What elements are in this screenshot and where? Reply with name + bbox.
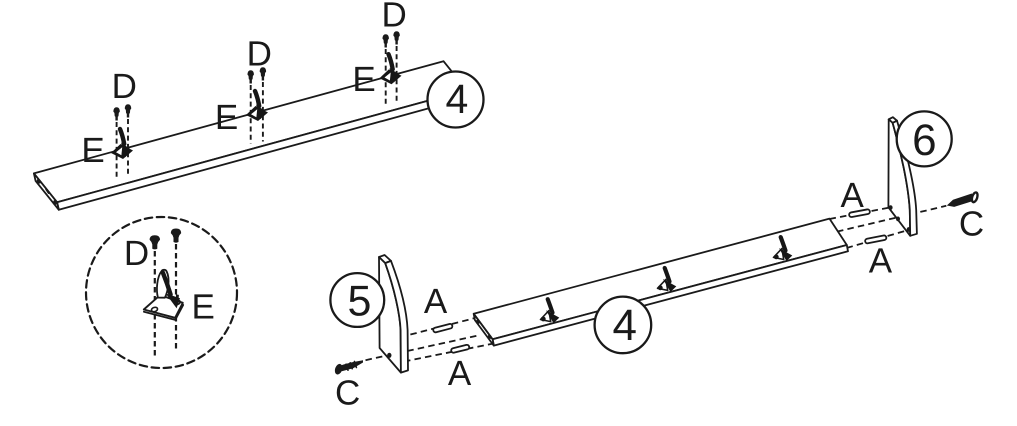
svg-text:A: A: [448, 354, 472, 393]
svg-text:A: A: [424, 282, 448, 321]
svg-text:A: A: [841, 176, 865, 215]
svg-text:5: 5: [348, 278, 372, 326]
svg-text:C: C: [959, 205, 984, 244]
svg-text:D: D: [382, 0, 407, 34]
svg-text:D: D: [247, 35, 272, 74]
svg-text:D: D: [112, 67, 137, 106]
svg-text:E: E: [352, 60, 375, 99]
svg-text:E: E: [192, 288, 215, 327]
svg-text:A: A: [869, 241, 893, 280]
svg-text:E: E: [81, 131, 104, 170]
svg-text:4: 4: [613, 301, 637, 350]
svg-text:E: E: [215, 98, 238, 137]
svg-text:4: 4: [445, 76, 468, 122]
svg-text:6: 6: [912, 116, 936, 165]
svg-text:C: C: [335, 373, 360, 412]
svg-text:D: D: [124, 234, 149, 273]
